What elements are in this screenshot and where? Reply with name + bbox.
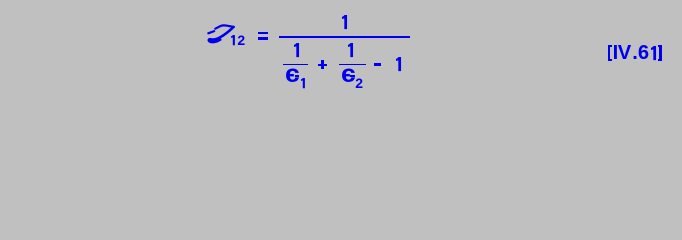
subscript 1 of epsilon 1: [301, 78, 305, 88]
second small fraction bar: [339, 64, 366, 66]
minus sign: [374, 63, 381, 65]
equation number digit 6: [638, 43, 649, 63]
bracket [ bottom arm: [610, 59, 612, 61]
equation number period: [632, 43, 638, 63]
epsilon 1: [285, 62, 300, 87]
plus sign: vertical stroke: [321, 60, 324, 69]
bracket [ top arm: [610, 45, 612, 47]
epsilon 2 middle bar extension: [350, 75, 355, 77]
script F (radiative exchange factor symbol): [205, 22, 237, 46]
equation number bracket ] : vertical stroke: [659, 45, 662, 61]
equation number bracket [ : vertical stroke: [608, 45, 611, 61]
crossbar of script F: [208, 31, 214, 33]
equals sign: bottom bar: [258, 37, 268, 40]
denominator: second small fraction numerator 1: [348, 43, 353, 57]
plus sign: horizontal stroke: [318, 64, 327, 67]
numerator 1: [342, 15, 347, 29]
main diagonal stem and bottom curl of script F: [209, 27, 233, 42]
subscript 1 of F12: [231, 35, 235, 45]
equals sign: top bar: [258, 32, 268, 35]
bracket ] bottom arm: [658, 59, 660, 61]
equation number letter V: [618, 43, 631, 63]
epsilon 2: [341, 62, 356, 87]
main fraction bar: [279, 36, 410, 38]
subscript 2 of epsilon 2: [355, 76, 363, 90]
denominator: first small fraction numerator 1: [294, 43, 299, 57]
equation number letter I: [613, 43, 619, 63]
subscript 2 of F12: [237, 33, 245, 47]
epsilon 1 middle bar extension: [295, 75, 300, 77]
first small fraction bar: [283, 64, 308, 66]
top flourish stroke of script F: [215, 25, 234, 28]
final 1 in denominator: [396, 57, 401, 71]
equation number digit 1: [651, 46, 656, 60]
bracket ] top arm: [658, 45, 660, 47]
